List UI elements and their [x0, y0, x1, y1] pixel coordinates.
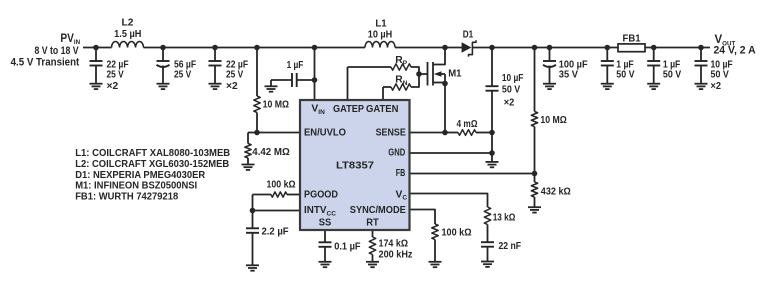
svg-text:100 kΩ: 100 kΩ [267, 180, 296, 191]
svg-text:50 V: 50 V [502, 85, 520, 96]
capacitor C1 22uF input [90, 45, 129, 92]
svg-text:1.5 µH: 1.5 µH [114, 29, 141, 40]
resistor RP [391, 55, 411, 70]
svg-text:SYNC/MODE: SYNC/MODE [350, 205, 406, 216]
svg-text:24 V, 2 A: 24 V, 2 A [714, 45, 756, 57]
svg-text:4 mΩ: 4 mΩ [457, 119, 478, 130]
svg-text:GND: GND [388, 147, 405, 158]
pin label VIN [311, 104, 325, 116]
capacitor C2 56uF input [157, 45, 197, 89]
notes component list [75, 148, 230, 203]
svg-text:GATEP: GATEP [333, 104, 364, 115]
resistor R-PGOOD 100k [253, 180, 301, 198]
resistor R-VC 13k [484, 207, 515, 242]
svg-text:×2: ×2 [226, 81, 238, 92]
svg-text:L2: L2 [122, 18, 134, 29]
wire FB row [410, 171, 537, 177]
svg-text:×2: ×2 [504, 98, 515, 109]
pin label GATEN [366, 104, 398, 115]
diode D1 [462, 29, 476, 56]
svg-text:FB1: FB1 [623, 33, 641, 44]
pin label GND [388, 147, 405, 158]
node VOUT output terminal label [714, 34, 756, 56]
ground under sync 100k [429, 262, 442, 267]
wire rail L1 to D1 anode [395, 47, 463, 49]
resistor R-UVLO-top 10M [254, 45, 289, 133]
pin label VC [396, 189, 408, 201]
capacitor C4 1uF VIN bypass [271, 60, 317, 87]
svg-text:35 V: 35 V [559, 70, 578, 81]
pin label GATEP [333, 104, 364, 115]
resistor R-RT 174k [369, 230, 412, 262]
wire RN to gate node [411, 74, 419, 87]
resistor R-FB-top 10M [531, 45, 567, 174]
svg-text:22 nF: 22 nF [499, 241, 522, 252]
svg-text:SS: SS [319, 218, 332, 229]
svg-text:50 V: 50 V [711, 70, 729, 81]
inductor L2 [112, 18, 144, 48]
svg-text:PGOOD: PGOOD [304, 189, 338, 200]
wire VC row [410, 194, 488, 208]
transistor M1 [419, 48, 462, 133]
wire input rail from PVIN to L2 [83, 47, 112, 49]
wire EN/UVLO to IC [257, 132, 300, 134]
svg-text:M1: M1 [448, 68, 462, 79]
svg-text:13 kΩ: 13 kΩ [493, 212, 516, 223]
resistor R-UVLO-bot 4.42M [245, 133, 290, 165]
wire rail D1 cathode to FB1 [472, 47, 618, 49]
ground under 2.2uF [246, 265, 259, 270]
wire GATEP to RP [348, 67, 392, 100]
svg-text:0.1 µF: 0.1 µF [334, 241, 360, 252]
ferrite bead FB1 [618, 33, 645, 51]
svg-text:10 µH: 10 µH [368, 30, 393, 41]
capacitor C7 1uF output [601, 45, 635, 89]
ground under SS cap [319, 262, 332, 267]
resistor R-SYNC 100k [432, 224, 472, 262]
IC name LT8357 [336, 160, 374, 171]
inductor L1 [365, 18, 395, 47]
node PVIN input terminal label [11, 33, 81, 69]
svg-text:L1: COILCRAFT XAL8080-103MEB: L1: COILCRAFT XAL8080-103MEB [75, 148, 230, 159]
svg-text:25 V: 25 V [107, 70, 124, 81]
svg-text:M1: INFINEON BSZ0500NSI: M1: INFINEON BSZ0500NSI [75, 181, 197, 192]
svg-text:EN/UVLO: EN/UVLO [304, 128, 346, 139]
wire GND pin to ground [410, 152, 492, 154]
resistor R-FB-bot 432k [531, 174, 571, 208]
wire SENSE row [410, 130, 448, 136]
svg-text:4.5 V Transient: 4.5 V Transient [11, 57, 80, 69]
svg-text:×2: ×2 [711, 81, 722, 92]
ground under 4.42M [242, 165, 255, 170]
svg-text:4.42 MΩ: 4.42 MΩ [252, 147, 289, 158]
svg-text:25 V: 25 V [174, 70, 191, 81]
op-amp U1 LT8357 body [300, 100, 410, 230]
wire INTVCC row [250, 208, 300, 214]
wire GATEN to RN [383, 87, 391, 100]
ground under RT [366, 262, 379, 267]
wire RP to gate node [411, 67, 419, 74]
svg-text:D1: NEXPERIA PMEG4030ER: D1: NEXPERIA PMEG4030ER [75, 170, 206, 181]
svg-text:25 V: 25 V [226, 70, 243, 81]
pin label RT [366, 218, 379, 229]
svg-text:L1: L1 [375, 18, 387, 29]
svg-text:1 µF: 1 µF [287, 60, 304, 71]
capacitor C-VC 22nF [481, 241, 521, 262]
svg-text:50 V: 50 V [616, 70, 634, 81]
svg-text:200 kHz: 200 kHz [379, 249, 413, 260]
ground under 22nF [481, 262, 494, 267]
svg-text:100 kΩ: 100 kΩ [442, 227, 472, 238]
ground under 432k [528, 207, 541, 212]
ground switch node [486, 153, 499, 167]
capacitor C-INTVCC 2.2uF [246, 211, 289, 266]
wire rail FB1 to VOUT [645, 47, 710, 49]
capacitor C-SS 0.1uF [319, 230, 361, 262]
svg-text:D1: D1 [463, 29, 474, 40]
capacitor C3 22uF input [209, 45, 249, 92]
node EN junction [254, 130, 260, 136]
svg-text:×2: ×2 [107, 81, 119, 92]
svg-text:L2: COILCRAFT XGL6030-152MEB: L2: COILCRAFT XGL6030-152MEB [75, 159, 229, 170]
capacitor C8 1uF output [647, 45, 681, 89]
svg-text:10 MΩ: 10 MΩ [540, 115, 566, 126]
wire SYNC row [410, 210, 435, 225]
pin label SYNC/MODE [350, 205, 406, 216]
pin label INTVCC [304, 205, 336, 217]
pin label PGOOD [304, 189, 338, 200]
capacitor C6 100uF output [543, 45, 588, 89]
svg-text:SENSE: SENSE [376, 128, 406, 139]
svg-text:10 MΩ: 10 MΩ [263, 99, 289, 110]
ground for 1uF bypass [265, 86, 278, 91]
resistor R-sense 4mOhm [445, 119, 492, 136]
node C5 sense junction [489, 130, 495, 136]
pin label EN/UVLO [304, 128, 346, 139]
wire PGOOD to INTVCC junction [252, 195, 254, 211]
svg-text:8 V to 18 V: 8 V to 18 V [35, 45, 80, 57]
wire rail L2 to L1 [144, 47, 366, 49]
svg-text:FB1: WURTH 74279218: FB1: WURTH 74279218 [75, 192, 178, 203]
resistor RN [391, 75, 411, 91]
pin label SS [319, 218, 332, 229]
pin label FB [396, 168, 406, 179]
svg-text:50 V: 50 V [663, 70, 681, 81]
pin label SENSE [376, 128, 406, 139]
svg-text:432 kΩ: 432 kΩ [541, 186, 571, 197]
svg-text:174 kΩ: 174 kΩ [379, 238, 409, 249]
svg-text:2.2 µF: 2.2 µF [262, 226, 289, 237]
svg-text:RT: RT [366, 218, 379, 229]
svg-text:LT8357: LT8357 [336, 160, 374, 171]
svg-text:GATEN: GATEN [366, 104, 398, 115]
svg-text:10 µF: 10 µF [502, 73, 524, 84]
svg-text:FB: FB [396, 168, 406, 179]
capacitor C9 10uF output [695, 45, 733, 92]
node M1 drain on rail [442, 45, 448, 51]
wire VIN branch [312, 45, 318, 100]
node C5 gnd junction [489, 150, 495, 156]
node gate junction [416, 71, 422, 77]
capacitor C5 10uF switch node [486, 45, 524, 153]
